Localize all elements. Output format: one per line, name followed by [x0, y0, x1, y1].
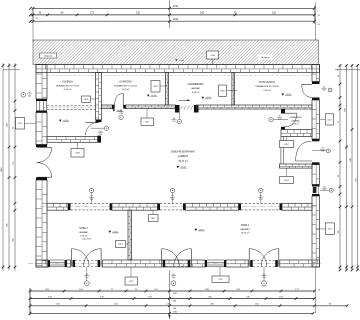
garderoba opening with demolition hatch — [175, 105, 180, 113]
svg-text:242: 242 — [200, 12, 205, 15]
svg-text:SOBA 2: SOBA 2 — [79, 227, 88, 230]
south wall bath-garderoba — [126, 105, 176, 109]
level marker hall1 — [147, 95, 150, 97]
svg-text:DNEVNI BORAVAK: DNEVNI BORAVAK — [171, 150, 195, 154]
right wall small window — [312, 185, 320, 187]
partition soba2/soba1 — [128, 210, 132, 260]
left exterior wall upper — [36, 65, 47, 100]
top exterior wall masonry — [36, 65, 320, 73]
spremiste left wall caps — [281, 109, 285, 114]
svg-text:UD3: UD3 — [75, 153, 80, 155]
tag spremiste door — [273, 119, 288, 121]
level marker kotlovnica — [282, 94, 285, 96]
bottom wall seg c — [103, 260, 206, 267]
small level marker on top wall — [175, 59, 177, 61]
label UD soba1 — [149, 215, 159, 222]
bottom wall seg e — [280, 260, 320, 267]
label UD3 kitchen — [82, 96, 91, 102]
section line B (x=315.3) — [314, 3, 316, 41]
svg-text:UD7: UD7 — [284, 180, 289, 182]
south wall kotlovnica/east part — [197, 105, 313, 109]
tag kitchen door — [91, 127, 104, 129]
tag below balcony door1 — [84, 281, 89, 286]
interior wall right of kitchen (bath south) — [101, 105, 114, 109]
svg-text:1192: 1192 — [173, 293, 178, 295]
bottom dimension chains — [30, 290, 315, 292]
label VD7 below bottom wall 2 — [212, 276, 229, 283]
soba wall centerline — [40, 206, 316, 208]
level marker garderoba — [202, 97, 205, 99]
bottom wall seg a — [36, 260, 48, 267]
soba top wall seg2b — [186, 203, 239, 210]
tag soba wall 2 — [170, 188, 174, 192]
jamb cap — [97, 136, 100, 143]
jamb cap bath door left — [112, 105, 114, 109]
cap — [280, 203, 283, 210]
svg-text:Ukopano: Ukopano — [261, 57, 270, 59]
left dimension chains — [2, 63, 4, 271]
partition garderoba/kotlovnica — [232, 73, 235, 106]
demolished opening 1 — [71, 203, 110, 205]
label UD2 kupaona — [151, 81, 160, 93]
bathroom door — [122, 94, 124, 106]
label UD7 rear hall — [280, 177, 294, 184]
left exterior wall lower — [36, 180, 47, 267]
double balcony door 3 (soba1) — [250, 260, 253, 267]
right exterior wall seg3 — [312, 165, 320, 185]
label Ukopano right — [258, 55, 273, 60]
tag garderoba door — [178, 113, 180, 120]
bottom wall seg b — [67, 260, 71, 267]
label box Ukopano — [40, 53, 57, 58]
tag right window — [320, 189, 329, 191]
svg-text:172: 172 — [90, 12, 95, 15]
double balcony door 1 (soba2) — [73, 260, 76, 267]
svg-text:GARDEROBA: GARDEROBA — [188, 83, 204, 86]
tag below balcony door3 — [262, 281, 267, 286]
cap — [110, 203, 113, 210]
level marker living room — [177, 166, 180, 168]
label UD7 spremiste — [280, 141, 294, 148]
svg-text:LAMINAT: LAMINAT — [178, 155, 189, 158]
svg-text:UD1: UD1 — [118, 244, 123, 246]
left wall window VD7 — [36, 99, 47, 101]
tag below balcony door2 — [171, 281, 176, 286]
tag bath door — [119, 115, 123, 119]
right exterior wall seg2 — [312, 100, 320, 139]
soba top wall seg3 — [282, 203, 312, 210]
jamb cap kitchen door top — [96, 120, 102, 122]
svg-text:1192: 1192 — [173, 5, 179, 8]
section line A (x=169.5) — [169, 0, 171, 28]
svg-text:UD7: UD7 — [284, 144, 289, 146]
bottom window soba1 — [205, 260, 207, 267]
bottom wall centerline — [28, 263, 321, 265]
demolished kitchen south wall (dashed) — [47, 105, 96, 107]
cap — [68, 203, 71, 210]
svg-text:210: 210 — [136, 12, 141, 15]
cap — [183, 203, 186, 210]
svg-text:UD2: UD2 — [220, 91, 225, 93]
soba top wall seg1 — [47, 203, 68, 210]
right exterior wall seg1 — [312, 65, 320, 82]
cap — [239, 203, 242, 210]
svg-text:1192: 1192 — [173, 312, 178, 314]
rear hall south wall — [280, 164, 313, 168]
right wall rear door — [312, 139, 320, 141]
kotlovnica exterior door — [312, 82, 320, 85]
svg-text:UD2: UD2 — [153, 86, 158, 88]
tag kotlovnica ext door — [328, 88, 332, 92]
level marker soba2 — [109, 231, 112, 233]
level marker kitchen — [59, 120, 62, 122]
svg-text:UD3: UD3 — [84, 99, 89, 101]
svg-text:UD7: UD7 — [145, 122, 150, 124]
tag soba wall 3 — [259, 188, 263, 192]
bottom wall seg d — [226, 260, 248, 267]
label VD7 below bottom wall 1 — [125, 277, 138, 285]
interior face dashed line below top wall — [47, 75, 312, 77]
left wall double entry door — [36, 145, 47, 148]
spremiste south wall — [281, 130, 312, 137]
svg-text:140+2x70: 140+2x70 — [82, 238, 92, 240]
level marker soba1 — [195, 229, 198, 231]
label box right UD4 — [320, 118, 326, 120]
hatched existing structure band — [33, 40, 319, 65]
label UD7 hall — [141, 118, 154, 125]
demolished opening mid — [160, 203, 183, 205]
svg-text:Ukopano: Ukopano — [44, 56, 53, 58]
right dimension chains — [339, 65, 341, 271]
label box right UD5 — [316, 228, 326, 230]
svg-text:1192: 1192 — [173, 18, 179, 21]
partition bath/garderoba — [166, 73, 169, 106]
wall below kitchen — [47, 137, 101, 143]
tag soba wall 1 — [89, 188, 93, 192]
label UD2 garderoba — [219, 85, 227, 96]
left exterior wall middle — [36, 113, 47, 145]
bottom window soba2 — [48, 260, 50, 267]
top dimension chain — [33, 7, 315, 9]
label UD3 below kitchen wall — [71, 149, 84, 158]
tag rear door — [312, 150, 326, 152]
right exterior wall seg4 — [312, 196, 320, 267]
svg-text:KUHINJA: KUHINJA — [62, 81, 73, 84]
svg-text:KUPAONA: KUPAONA — [119, 81, 131, 84]
svg-text:KOTLOVNICA: KOTLOVNICA — [259, 81, 275, 84]
demolished opening 2 — [241, 203, 280, 205]
soba top wall seg2a — [112, 203, 158, 210]
partition kitchen/bath — [96, 73, 102, 120]
tag left window — [21, 92, 26, 97]
svg-text:UD7: UD7 — [151, 218, 156, 220]
svg-text:315: 315 — [272, 12, 277, 15]
svg-text:SOBA 1: SOBA 1 — [241, 224, 250, 227]
entry arrow garderoba — [179, 99, 190, 101]
level marker bath — [113, 109, 116, 111]
window label VD7 left — [16, 118, 25, 130]
wall stub left of rear hall — [280, 137, 282, 165]
kitchen door — [85, 122, 98, 124]
svg-text:39.47 m²: 39.47 m² — [178, 160, 188, 163]
jamb cap bath door right — [123, 105, 126, 109]
cap — [158, 203, 161, 210]
label VD5 top — [207, 51, 219, 59]
label UD soba2 — [116, 241, 126, 248]
double balcony door 2 (soba1) — [163, 260, 166, 267]
svg-text:1100: 1100 — [1, 167, 3, 172]
svg-text:+0.45: +0.45 — [179, 60, 184, 62]
spremiste door — [284, 112, 297, 114]
